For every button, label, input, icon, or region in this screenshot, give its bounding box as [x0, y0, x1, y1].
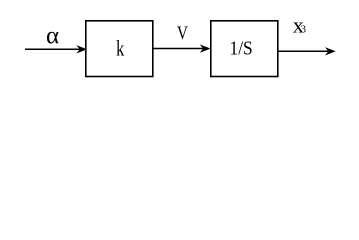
- node: arrowhead into block 1/S: [201, 45, 210, 52]
- svg-text:k: k: [116, 36, 124, 61]
- wire: input signal line: [25, 48, 80, 50]
- node alpha: input label: [46, 23, 59, 50]
- block k: gain block: [86, 21, 153, 77]
- block 1/S: integrator block: [211, 21, 278, 77]
- svg-text:1/S: 1/S: [230, 38, 253, 60]
- node V: intermediate signal label: [177, 24, 189, 44]
- node: input arrowhead into block k: [77, 46, 86, 53]
- node: output arrowhead: [326, 48, 335, 55]
- wire: output signal line: [278, 50, 328, 52]
- svg-text:3: 3: [301, 25, 306, 36]
- wire V: line from block k to block 1/S: [153, 48, 204, 50]
- svg-text:V: V: [177, 24, 189, 44]
- svg-text:α: α: [46, 23, 59, 50]
- node x3: output label: [293, 12, 306, 37]
